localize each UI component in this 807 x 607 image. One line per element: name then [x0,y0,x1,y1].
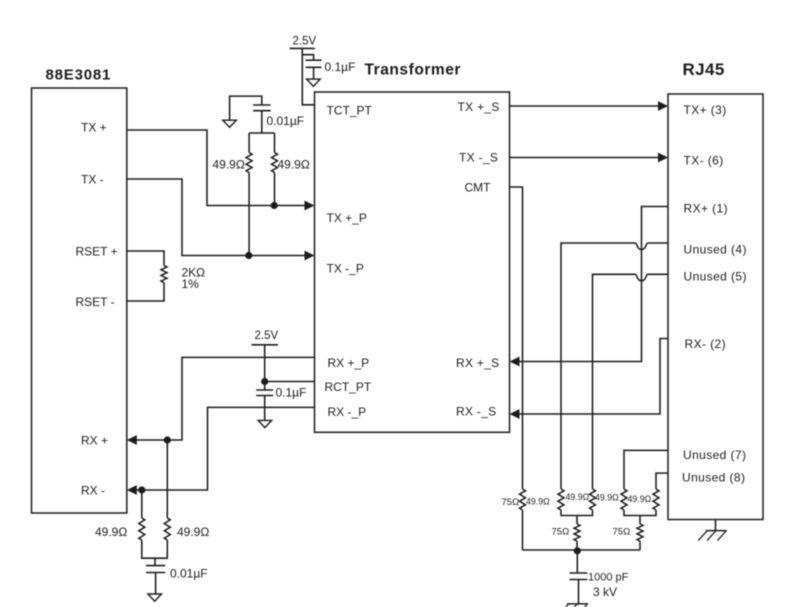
pin label Unused (5) [684,270,747,284]
label 49.9ohm (R8) [566,492,590,502]
resistor R4 49.9 ohm (RX right) [164,518,170,540]
arrow into TX +_P [305,201,315,211]
svg-text:2.5V: 2.5V [293,36,317,48]
svg-text:0.1µF: 0.1µF [276,386,307,400]
pin label Unused (7) [683,448,746,462]
svg-text:Unused (7): Unused (7) [683,448,746,462]
pin label TCT_PT [327,104,373,118]
pin label TX +_P [327,211,367,225]
resistor R12 75 ohm [637,524,643,541]
wire C1 to ground [313,67,315,79]
label 75ohm (R6) [502,497,520,508]
label 0.01uF (RX) [170,567,208,581]
label 0.1uF (RX) [276,386,307,400]
wire common node rail [523,549,641,551]
label 1000 pF [588,572,629,584]
wire common node to C5 [576,550,578,573]
resistor R8 49.9 ohm [590,489,596,510]
label 49.9ohm (R9) [595,493,619,503]
label Transformer [365,62,462,79]
junction RCT_PT [261,378,268,385]
svg-text:TX +_S: TX +_S [458,100,500,114]
svg-text:49.9Ω: 49.9Ω [566,492,590,502]
pin label RCT_PT [325,380,372,394]
pin label TX- (6) [684,154,724,168]
svg-text:RJ45: RJ45 [683,60,725,79]
label 0.01uF (TX) [267,114,305,128]
label 1% [182,277,200,291]
label 49.9ohm (R10) [628,494,652,504]
wire C4 to ground [155,573,157,595]
wire R3 to RSET- [127,283,164,302]
svg-text:49.9Ω: 49.9Ω [177,525,209,539]
wire TX-_S to RJ45 TX-(6) [510,157,660,159]
wire 2.5V to C3 / RCT_PT [264,345,266,390]
svg-text:TX -_P: TX -_P [327,262,364,276]
label 75ohm (R12) [613,527,631,538]
capacitor C3 0.1uF [256,390,273,396]
RJ45 connector J1 box [668,94,763,520]
capacitor C2 0.01uF [253,105,270,111]
svg-text:75Ω: 75Ω [552,527,570,538]
pin label RSET + (88E3081) [76,245,118,259]
pin label RX- (2) [685,337,726,351]
pin label TX+ (3) [684,103,727,117]
svg-text:1%: 1% [182,277,200,291]
resistor R11 75 ohm [574,524,580,541]
junction TX-_P / R1 [245,252,252,259]
arrow into RJ45 TX+(3) [658,101,668,111]
wire R7/R8 to R11 [561,510,593,524]
pin label TX -_S [459,151,498,165]
svg-text:75Ω: 75Ω [613,527,631,538]
label RJ45 [683,60,725,79]
pin label Unused (4) [684,243,747,257]
pin label TX + (88E3081) [81,121,107,135]
svg-text:49.9Ω: 49.9Ω [213,158,245,172]
svg-text:0.01µF: 0.01µF [267,114,305,128]
wire R12 to common node [639,541,641,550]
arrow into RJ45 TX-(6) [658,153,668,163]
resistor R2 49.9 ohm (TX right) [272,153,278,173]
label 0.1uF (top) [325,60,356,74]
wire Unused(5) to R8 [593,274,669,489]
resistor R9 49.9 ohm [621,489,627,510]
pin label CMT [465,181,492,195]
wire R1 to TX-_P net [248,173,250,256]
svg-text:0.1µF: 0.1µF [325,60,356,74]
wire C2 to resistor pair [249,111,274,153]
wire C3 to ground [264,396,266,421]
svg-text:RCT_PT: RCT_PT [325,380,372,394]
svg-text:RX -_S: RX -_S [456,405,496,419]
power rail 2.5V (TCT) [290,36,317,49]
ground (below C3) [258,420,272,427]
pin label TX -_P [327,262,364,276]
resistor R6 75 ohm (CMT) [520,489,526,510]
wire CMT to R6 [510,187,523,489]
svg-text:RX- (2): RX- (2) [685,337,726,351]
pin label RSET - (88E3081) [76,295,115,309]
svg-text:TX- (6): TX- (6) [684,154,724,168]
svg-text:Unused (4): Unused (4) [684,243,747,257]
capacitor C5 1000pF [570,573,588,580]
svg-text:CMT: CMT [465,181,492,195]
wire RX+ junction to R4 [166,440,168,518]
arrow into 88E3081 RX+ [127,435,137,445]
pin label RX+ (1) [684,202,728,216]
label 88E3081 [46,67,112,84]
svg-text:49.9Ω: 49.9Ω [595,493,619,503]
wire TX+ net (88E3081 TX+ to transformer TX+_P) [127,130,306,206]
wire TX- net (88E3081 TX- to transformer TX-_P) [127,179,306,256]
svg-text:75Ω: 75Ω [502,497,520,508]
svg-text:88E3081: 88E3081 [46,67,112,84]
label 75ohm (R11) [552,527,570,538]
resistor R5 49.9 ohm (RX left) [139,518,145,540]
svg-text:RSET +: RSET + [76,245,118,259]
svg-text:TX -: TX - [81,173,104,187]
svg-text:TX+ (3): TX+ (3) [684,103,727,117]
junction TX+_P / R2 [271,202,278,209]
svg-text:RX -: RX - [81,484,105,498]
wire R4/R5 to C4 [142,540,168,566]
capacitor C4 0.01uF [146,566,165,573]
wire ground hook to C2 [230,96,262,120]
junction common node [574,547,581,554]
label 3 kV [593,585,617,599]
label 2Kohm [182,266,206,280]
wire 2.5V to TCT_PT pin [302,48,314,104]
arrow into RX -_S [510,409,520,419]
wire R2 to TX+_P net [274,173,276,206]
svg-text:RSET -: RSET - [76,295,115,309]
svg-text:Unused (8): Unused (8) [682,471,745,485]
label 49.9ohm (R7) [526,497,550,507]
wire 2.5V to C1 [302,55,313,61]
arrow into TX -_P [305,251,315,261]
resistor R1 49.9 ohm (TX left) [246,153,252,173]
wire R9/R10 to R12 [624,510,656,524]
ground (below C4) [148,594,162,601]
wire RCT_PT stub [265,381,315,383]
svg-text:TX +: TX + [81,121,107,135]
pin label Unused (8) [682,471,745,485]
wire RX-_S to RJ45 RX-(2) [519,339,668,415]
earth ground (RJ45 shield) [698,531,727,541]
svg-text:49.9Ω: 49.9Ω [95,525,127,539]
svg-text:TCT_PT: TCT_PT [327,104,373,118]
svg-text:2.5V: 2.5V [255,330,279,342]
label 49.9ohm (TX left) [213,158,245,172]
resistor R10 49.9 ohm [653,489,659,510]
pin label TX - (88E3081) [81,173,104,187]
arrow into RX +_S [510,357,520,367]
svg-text:RX +_S: RX +_S [456,356,500,370]
wire RX- net (transformer RX-_P to 88E3081 RX-) [136,407,315,490]
hop Unused(4) over RX+(1) line [635,243,648,250]
svg-text:RX +_P: RX +_P [328,356,370,370]
svg-text:RX +: RX + [81,434,108,448]
wire TX+_S to RJ45 TX+(3) [510,105,660,107]
resistor R3 2K ohm 1% [161,266,167,283]
label 49.9ohm (RX left) [95,525,127,539]
label 49.9ohm (RX right) [177,525,209,539]
junction RX+ / R4 [164,436,171,443]
pin label TX +_S [458,100,500,114]
svg-text:49.9Ω: 49.9Ω [628,494,652,504]
wire R11 to common node [576,541,578,550]
svg-text:Unused (5): Unused (5) [684,270,747,284]
pin label RX + (88E3081) [81,434,108,448]
svg-text:TX -_S: TX -_S [459,151,498,165]
wire RX+ net (transformer RX+_P to 88E3081 RX+) [136,357,315,440]
pin label RX +_S [456,356,500,370]
svg-text:TX +_P: TX +_P [327,211,367,225]
earth ground (below C5) [560,604,589,607]
wire RX+_S to RJ45 RX+(1) [519,207,668,362]
label 49.9ohm (TX right) [278,158,310,172]
wire Unused(8) to R10 [656,473,668,489]
wire Unused(7) to R9 [624,450,668,489]
wire C5 to earth ground [578,580,580,604]
ground (below C1) [307,79,321,86]
svg-text:0.01µF: 0.01µF [170,567,208,581]
ground (TX bias) [223,120,237,127]
transformer T1 box [315,92,510,432]
junction RX- / R5 [138,486,145,493]
hop Unused(5) over RX+(1) line [635,274,648,281]
wire Unused(4) to R7 [561,243,668,489]
wire RX- junction to R5 [141,490,143,518]
svg-text:49.9Ω: 49.9Ω [526,497,550,507]
pin label RX -_S [456,405,496,419]
pin label RX -_P [328,405,367,419]
svg-text:RX -_P: RX -_P [328,405,367,419]
resistor R7 49.9 ohm [558,489,564,510]
capacitor C1 0.1uF [306,60,322,67]
wire R6 to common node [522,510,524,550]
wire RJ45 shield to ground [715,520,717,531]
svg-text:3 kV: 3 kV [593,585,617,599]
svg-text:49.9Ω: 49.9Ω [278,158,310,172]
svg-text:Transformer: Transformer [365,62,462,79]
power rail 2.5V (RCT) [252,330,279,345]
svg-text:1000 pF: 1000 pF [588,572,629,584]
IC 88E3081 (PHY) box [32,88,127,513]
pin label RX +_P [328,356,370,370]
svg-text:RX+ (1): RX+ (1) [684,202,728,216]
arrow into 88E3081 RX- [127,485,137,495]
wire RSET+ to R3 [127,251,164,266]
pin label RX - (88E3081) [81,484,105,498]
